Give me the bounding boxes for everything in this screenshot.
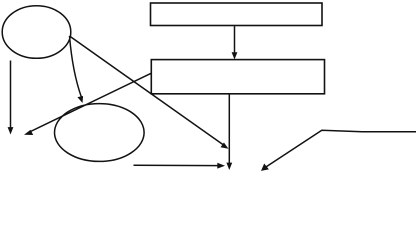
arrow from R2 left edge down-left past E2 xyxy=(24,73,151,135)
rectangle node R1 xyxy=(151,3,323,26)
long diagonal arrow E1 to vertical line xyxy=(70,36,229,149)
arrow from E1 straight down xyxy=(8,61,14,135)
ellipse node E1 xyxy=(2,6,71,59)
bottom-right polyline arrow xyxy=(261,130,416,171)
rectangle node R2 xyxy=(151,60,324,94)
arrow R2 bottom to join point xyxy=(226,95,232,171)
arrow E1 to E2 (short steep) xyxy=(70,36,84,103)
ellipse node E2 xyxy=(55,104,145,162)
arrow E2 to join point (horizontal) xyxy=(134,163,226,169)
arrow R1 to R2 xyxy=(232,26,238,59)
